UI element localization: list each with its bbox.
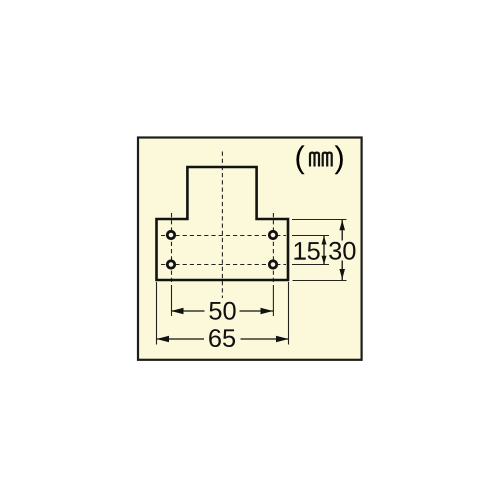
left hole-column centerline <box>171 213 173 285</box>
extension line below left hole column (50) <box>171 285 173 316</box>
vertical centerline <box>221 152 223 299</box>
unit label (mm) <box>296 145 342 174</box>
T-plate outline <box>157 167 289 280</box>
bottom hole-row centerline <box>161 264 286 266</box>
panel background square <box>138 138 362 360</box>
extension line right of bottom hole row (15 bottom) <box>292 264 329 266</box>
dimension line 15 <box>322 236 327 265</box>
label 50 <box>205 301 240 321</box>
dimension line 50 <box>171 308 273 314</box>
dimension line 65 <box>157 336 289 342</box>
extension line below right hole column (50) <box>272 285 274 316</box>
hole bottom-right <box>269 261 276 268</box>
label 30 <box>328 241 358 261</box>
extension line below plate left edge (65) <box>156 282 158 345</box>
extension line right of shoulder (30 top) <box>292 219 347 221</box>
dimension line 30 <box>339 219 345 280</box>
top hole-row centerline <box>161 235 286 237</box>
extension line right of top hole row (15 top) <box>292 235 329 237</box>
label 65 <box>204 329 241 349</box>
hole top-left <box>167 231 174 238</box>
extension line below plate right edge (65) <box>288 282 290 345</box>
label 15 <box>294 242 319 260</box>
hole top-right <box>269 231 276 238</box>
extension line right of plate bottom (30 bottom) <box>293 280 347 282</box>
right hole-column centerline <box>272 213 274 285</box>
hole bottom-left <box>167 261 174 268</box>
